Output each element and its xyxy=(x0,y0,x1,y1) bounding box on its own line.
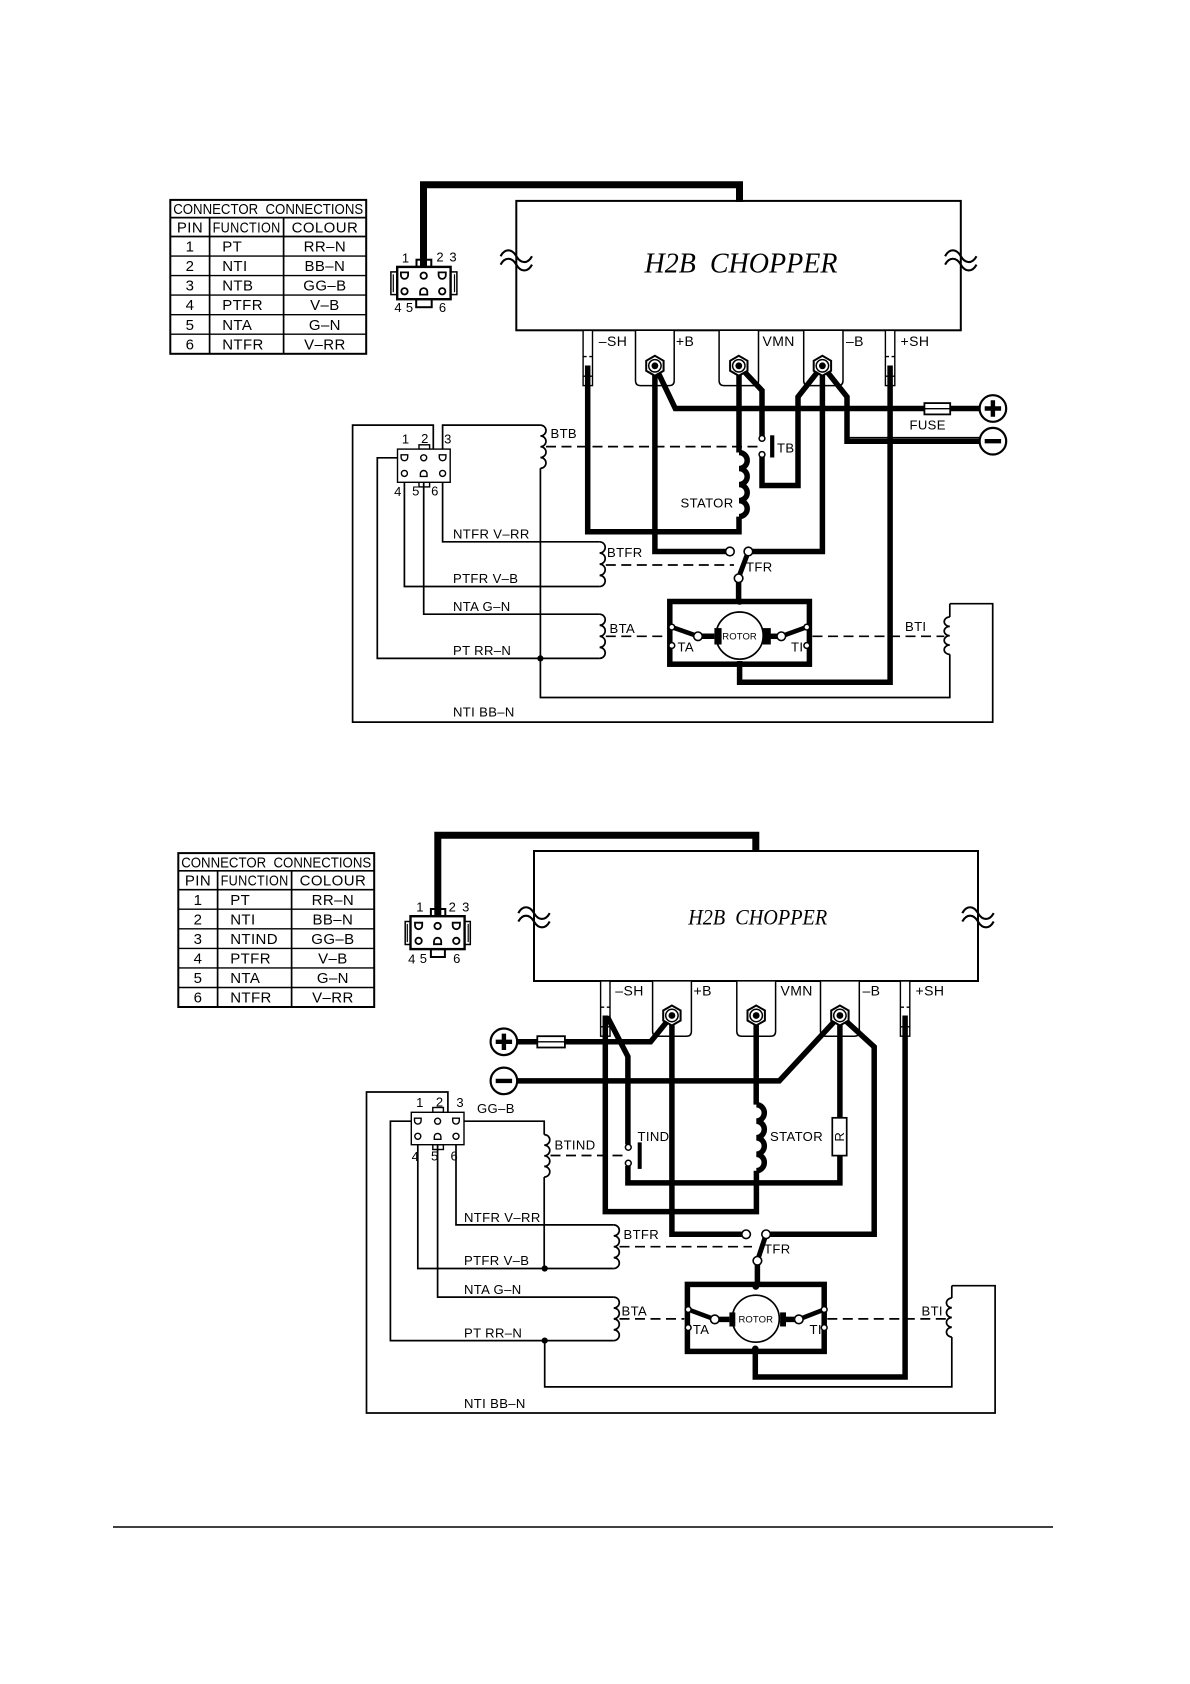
label TI (bottom) xyxy=(810,1322,822,1337)
svg-text:5: 5 xyxy=(420,951,427,966)
svg-text:6: 6 xyxy=(186,336,195,353)
break squiggle right of U2 xyxy=(962,907,993,927)
terminal tab +SH (top) xyxy=(885,330,894,385)
wire VMN to stator top (top) xyxy=(736,366,742,453)
svg-text:COLOUR: COLOUR xyxy=(292,220,359,237)
svg-text:TB: TB xyxy=(777,441,794,456)
svg-text:3: 3 xyxy=(194,931,203,948)
svg-text:1: 1 xyxy=(402,251,409,266)
label BTIND (bottom) xyxy=(555,1138,596,1153)
wire PT RR-N pin1 (bottom) xyxy=(390,1121,613,1340)
inductor BTA (top) xyxy=(600,614,606,658)
inductor STATOR (bottom) xyxy=(756,1105,764,1171)
svg-text:5: 5 xyxy=(194,970,203,987)
svg-text:1: 1 xyxy=(416,900,423,915)
dashed link BTIND to TIND (bottom) xyxy=(551,1155,625,1157)
wire pin3 to BTB (top) xyxy=(443,425,541,455)
svg-text:1: 1 xyxy=(194,892,203,909)
svg-text:CONNECTOR CONNECTIONS: CONNECTOR CONNECTIONS xyxy=(173,202,363,218)
label NTFR V-RR (top) xyxy=(453,527,530,542)
inductor BTFR (top) xyxy=(600,542,606,587)
svg-text:+SH: +SH xyxy=(916,983,945,999)
cable connector J3 to chopper (bottom) xyxy=(438,835,756,915)
wire +SH to rotor bottom (bottom) xyxy=(755,1016,905,1378)
label TI (top) xyxy=(791,640,803,655)
switch TFR contacts (top) xyxy=(726,547,753,582)
inductor BTA (bottom) xyxy=(614,1297,620,1341)
svg-text:–B: –B xyxy=(863,983,881,999)
svg-text:NTA: NTA xyxy=(230,970,260,987)
dashed link BTA to TA (bottom) xyxy=(620,1318,685,1320)
terminal tab +B (bottom) xyxy=(653,982,692,1037)
label STATOR (top) xyxy=(681,496,734,511)
svg-text:BB–N: BB–N xyxy=(313,911,354,928)
svg-text:–SH: –SH xyxy=(599,333,627,349)
terminal - battery (bottom) xyxy=(491,1068,518,1095)
svg-text:STATOR: STATOR xyxy=(681,496,734,511)
bolt terminal -B (bottom) xyxy=(831,1006,848,1026)
terminal tab -B (bottom) xyxy=(821,982,860,1037)
svg-text:2: 2 xyxy=(436,1095,443,1110)
rotor circle (top) xyxy=(716,612,763,659)
svg-text:+SH: +SH xyxy=(901,333,930,349)
label TB (top) xyxy=(777,441,794,456)
svg-text:NTA G–N: NTA G–N xyxy=(453,599,511,614)
svg-text:1: 1 xyxy=(402,432,409,447)
label +SH (bottom) xyxy=(916,983,945,999)
wire -B to TFR pivot (bottom) xyxy=(770,1016,874,1235)
inductor BTB (top) xyxy=(540,425,546,468)
wire PTFR V-B pin4 (bottom) xyxy=(418,1140,614,1269)
switch TFR contacts (bottom) xyxy=(742,1230,771,1265)
svg-text:H2B CHOPPER: H2B CHOPPER xyxy=(687,905,827,929)
svg-text:5: 5 xyxy=(186,317,195,334)
dashed link TI to BTI (top) xyxy=(813,635,945,637)
wire TIND bottom to resistor R (bottom) xyxy=(628,1156,840,1183)
wire VMN to TB top contact (top) xyxy=(739,366,762,436)
label TIND (bottom) xyxy=(638,1129,670,1144)
label TFR (top) xyxy=(746,560,773,575)
label -B (bottom) xyxy=(863,983,881,999)
svg-text:6: 6 xyxy=(450,1149,457,1164)
svg-text:TI: TI xyxy=(810,1322,822,1337)
svg-text:TA: TA xyxy=(693,1322,709,1337)
label BTI (bottom) xyxy=(922,1304,943,1319)
contact circles TA (top) xyxy=(669,624,702,648)
inductor STATOR (top) xyxy=(739,453,747,517)
wire NTA G-N pin5 (top) xyxy=(424,476,600,614)
fuse FUSE (top) xyxy=(924,403,950,414)
label -SH (top) xyxy=(599,333,627,349)
svg-text:GG–B: GG–B xyxy=(477,1101,515,1116)
bolt terminal +B (bottom) xyxy=(663,1006,680,1026)
wire NTI BB-N outer loop (top) xyxy=(353,425,993,722)
wire -B to - terminal (top) xyxy=(822,366,979,441)
svg-text:2: 2 xyxy=(194,911,203,928)
svg-text:FUNCTION: FUNCTION xyxy=(221,873,289,890)
svg-text:PT: PT xyxy=(230,892,250,909)
dashed link BTFR to TFR (bottom) xyxy=(620,1246,753,1248)
svg-text:2: 2 xyxy=(449,899,456,914)
svg-text:BTI: BTI xyxy=(905,619,926,634)
svg-text:PIN: PIN xyxy=(177,220,203,237)
svg-text:PTFR V–B: PTFR V–B xyxy=(464,1253,529,1268)
svg-text:–B: –B xyxy=(846,333,864,349)
junction dot rotor bottom (top) xyxy=(736,661,743,668)
svg-text:6: 6 xyxy=(439,300,446,315)
inductor BTFR (bottom) xyxy=(614,1225,620,1269)
svg-text:G–N: G–N xyxy=(317,970,349,987)
svg-text:NTFR: NTFR xyxy=(230,990,272,1007)
switch TFR blade (bottom) xyxy=(757,1234,766,1286)
table CONNECTOR CONNECTIONS (bottom) xyxy=(178,853,374,1007)
svg-text:5: 5 xyxy=(406,300,413,315)
wire -SH branch to TIND top (bottom) xyxy=(607,1017,628,1145)
bolt terminal VMN (top) xyxy=(730,356,747,376)
label +SH (top) xyxy=(901,333,930,349)
connector J3 6-pin (bottom) xyxy=(405,899,470,966)
svg-text:COLOUR: COLOUR xyxy=(300,873,367,890)
svg-text:G–N: G–N xyxy=(309,317,341,334)
svg-text:V–RR: V–RR xyxy=(304,336,346,353)
terminal tab VMN (top) xyxy=(719,331,758,386)
svg-text:R: R xyxy=(832,1132,847,1142)
switch TI blade and brush (bottom) xyxy=(780,1310,824,1327)
svg-text:PT RR–N: PT RR–N xyxy=(453,643,511,658)
svg-text:NTB: NTB xyxy=(222,278,253,295)
inductor BTIND (bottom) xyxy=(544,1135,550,1177)
svg-text:H2B CHOPPER: H2B CHOPPER xyxy=(644,249,838,280)
wire PT RR-N pin1 (top) xyxy=(377,458,599,659)
svg-text:ROTOR: ROTOR xyxy=(722,631,757,642)
switch TA blade and brush (bottom) xyxy=(688,1310,735,1327)
label +B (bottom) xyxy=(694,983,712,999)
inductor BTI (bottom) xyxy=(946,1286,951,1337)
svg-text:3: 3 xyxy=(186,278,195,295)
connector J2 6-pin harness (top) xyxy=(394,431,451,499)
label -SH (bottom) xyxy=(615,983,643,999)
wire pin3 GG-B to BTIND (bottom) xyxy=(460,1121,544,1134)
wire NTA G-N pin5 (bottom) xyxy=(438,1140,614,1297)
svg-text:4: 4 xyxy=(186,297,195,314)
label BTA (top) xyxy=(610,621,636,636)
svg-text:1: 1 xyxy=(416,1095,423,1110)
svg-text:NTA: NTA xyxy=(222,317,252,334)
label +B (top) xyxy=(676,333,694,349)
wire +B to TFR left contact (top) xyxy=(655,366,726,552)
wire +B to TFR left contact (bottom) xyxy=(672,1016,742,1235)
svg-text:ROTOR: ROTOR xyxy=(738,1314,773,1325)
wire NTFR V-RR pin6 (bottom) xyxy=(456,1140,614,1225)
wire -SH to stator bottom (bottom) xyxy=(605,1016,756,1212)
label -B (top) xyxy=(846,333,864,349)
svg-text:PT: PT xyxy=(222,239,242,256)
svg-text:TFR: TFR xyxy=(746,560,773,575)
svg-text:BTIND: BTIND xyxy=(555,1138,596,1153)
terminal + battery (top) xyxy=(980,395,1007,422)
terminal tab -SH (top) xyxy=(583,330,592,385)
wire +SH to rotor bottom (top) xyxy=(740,366,891,683)
label NTFR V-RR (bottom) xyxy=(464,1210,541,1225)
label VMN (bottom) xyxy=(781,983,813,999)
terminal tab -B (top) xyxy=(804,331,843,386)
wire NTI BB-N outer loop (bottom) xyxy=(367,1092,996,1413)
svg-text:PIN: PIN xyxy=(185,873,211,890)
svg-text:NTIND: NTIND xyxy=(230,931,278,948)
footer rule xyxy=(113,1526,1053,1528)
svg-text:2: 2 xyxy=(421,431,428,446)
svg-text:1: 1 xyxy=(186,239,195,256)
svg-text:PTFR: PTFR xyxy=(222,297,263,314)
dashed link BTB to TB (top) xyxy=(546,446,758,448)
table CONNECTOR CONNECTIONS (top) xyxy=(170,200,366,354)
junction dot rotor top (bottom) xyxy=(753,1283,760,1290)
connector J4 6-pin harness (bottom) xyxy=(411,1095,464,1165)
label STATOR (bottom) xyxy=(770,1129,823,1144)
svg-text:NTFR: NTFR xyxy=(222,336,264,353)
label PT RR-N (top) xyxy=(453,643,511,658)
wire PTFR V-B pin4 (top) xyxy=(404,476,599,586)
junction dot BTIND / PTFR V-B (bottom) xyxy=(542,1265,548,1271)
label NTI BB-N (top) xyxy=(453,705,515,720)
svg-text:BTFR: BTFR xyxy=(624,1227,660,1242)
terminal - battery (top) xyxy=(980,428,1007,455)
svg-text:2: 2 xyxy=(186,258,195,275)
svg-text:6: 6 xyxy=(431,484,438,499)
chopper box U1 (top diagram) xyxy=(516,201,961,330)
svg-text:4: 4 xyxy=(394,300,401,315)
svg-text:NTI: NTI xyxy=(222,258,247,275)
inductor BTI (top) xyxy=(944,604,950,655)
svg-text:VMN: VMN xyxy=(781,983,813,999)
svg-text:NTI BB–N: NTI BB–N xyxy=(453,705,515,720)
label NTI BB-N (bottom) xyxy=(464,1396,526,1411)
svg-text:3: 3 xyxy=(444,432,451,447)
label TA (top) xyxy=(678,640,694,655)
cable connector J1 to chopper (top) xyxy=(424,185,740,266)
label TFR (bottom) xyxy=(764,1242,791,1257)
terminal tab -SH (bottom) xyxy=(601,981,610,1036)
svg-text:3: 3 xyxy=(449,250,456,265)
bolt terminal VMN (bottom) xyxy=(748,1006,765,1026)
svg-text:TIND: TIND xyxy=(638,1129,670,1144)
svg-text:V–B: V–B xyxy=(318,950,348,967)
label NTA G-N (bottom) xyxy=(464,1282,522,1297)
dashed link BTFR to TFR (top) xyxy=(606,564,734,566)
label BTA (bottom) xyxy=(622,1304,648,1319)
contact circles TA (bottom) xyxy=(685,1307,719,1331)
label BTB (top) xyxy=(551,426,578,441)
label BTI (top) xyxy=(905,619,926,634)
switch TI blade and brush (top) xyxy=(763,627,807,644)
contact circles TI (top) xyxy=(777,624,810,648)
svg-text:PTFR: PTFR xyxy=(230,950,271,967)
label PT RR-N (bottom) xyxy=(464,1326,522,1341)
svg-text:BTA: BTA xyxy=(622,1304,648,1319)
bolt terminal -B (top) xyxy=(814,356,831,376)
junction dot rotor top (top) xyxy=(736,598,743,605)
svg-text:BTI: BTI xyxy=(922,1304,943,1319)
svg-text:NTFR V–RR: NTFR V–RR xyxy=(453,527,530,542)
label VMN (top) xyxy=(763,333,795,349)
svg-text:2: 2 xyxy=(436,250,443,265)
wire +B to fuse and + terminal (top) xyxy=(655,366,980,409)
label TA (bottom) xyxy=(693,1322,709,1337)
svg-text:3: 3 xyxy=(462,899,469,914)
svg-text:STATOR: STATOR xyxy=(770,1129,823,1144)
label H2B CHOPPER (bottom) xyxy=(687,905,827,929)
svg-text:3: 3 xyxy=(456,1095,463,1110)
wire BTIND bottom to PTFR junction (bottom) xyxy=(543,1177,545,1269)
chopper box U2 (bottom diagram) xyxy=(534,851,978,981)
svg-text:CONNECTOR CONNECTIONS: CONNECTOR CONNECTIONS xyxy=(181,855,371,871)
dashed link TI to BTI (bottom) xyxy=(827,1318,946,1320)
svg-text:BTA: BTA xyxy=(610,621,636,636)
junction dot PT RR-N / BTI link (bottom) xyxy=(542,1338,548,1344)
bolt terminal +B (top) xyxy=(646,356,663,376)
svg-text:+B: +B xyxy=(676,333,694,349)
label PTFR V-B (bottom) xyxy=(464,1253,529,1268)
svg-text:V–RR: V–RR xyxy=(312,990,354,1007)
junction dot rotor bottom (bottom) xyxy=(752,1346,759,1353)
svg-text:5: 5 xyxy=(412,483,419,498)
switch TFR blade (top) xyxy=(739,552,749,602)
svg-text:RR–N: RR–N xyxy=(304,239,346,256)
svg-text:NTI: NTI xyxy=(230,911,255,928)
svg-text:NTFR V–RR: NTFR V–RR xyxy=(464,1210,541,1225)
rotor circle (bottom) xyxy=(732,1295,779,1342)
svg-text:6: 6 xyxy=(194,990,203,1007)
fuse (bottom) xyxy=(537,1036,565,1047)
svg-text:PT RR–N: PT RR–N xyxy=(464,1326,522,1341)
svg-text:PTFR V–B: PTFR V–B xyxy=(453,571,518,586)
connector J1 6-pin (top) xyxy=(391,250,457,316)
svg-text:4: 4 xyxy=(408,952,415,967)
wire PT junction to BTI bottom (bottom) xyxy=(545,1337,952,1387)
svg-text:NTA G–N: NTA G–N xyxy=(464,1282,522,1297)
svg-text:4: 4 xyxy=(394,484,401,499)
label FUSE (top) xyxy=(910,418,946,433)
svg-text:+B: +B xyxy=(694,983,712,999)
wire TB bottom to -B (top) xyxy=(762,366,822,486)
svg-text:–SH: –SH xyxy=(615,983,643,999)
svg-text:V–B: V–B xyxy=(310,297,340,314)
dashed link BTA to TA (top) xyxy=(606,635,667,637)
break squiggle right of U1 xyxy=(945,250,976,270)
svg-text:TFR: TFR xyxy=(764,1242,791,1257)
switch TB contacts and bar (top) xyxy=(759,435,774,457)
label BTFR (bottom) xyxy=(624,1227,660,1242)
svg-text:VMN: VMN xyxy=(763,333,795,349)
break squiggle left of U1 xyxy=(501,250,532,270)
contact circles TI (bottom) xyxy=(795,1307,828,1331)
label PTFR V-B (top) xyxy=(453,571,518,586)
junction dot BTB / PT RR-N (top) xyxy=(537,655,543,661)
svg-text:5: 5 xyxy=(431,1149,438,1164)
svg-text:BB–N: BB–N xyxy=(305,258,346,275)
terminal + battery (bottom) xyxy=(491,1029,518,1056)
wire -SH to stator bottom (top) xyxy=(588,366,739,532)
wire -B to resistor R (bottom) xyxy=(837,1016,843,1118)
wire -B to TFR pivot (top) xyxy=(752,366,822,552)
svg-text:TI: TI xyxy=(791,640,803,655)
svg-text:6: 6 xyxy=(453,951,460,966)
wire VMN to stator top (bottom) xyxy=(753,1016,759,1105)
wire BTB bottom to BTI bottom (top) xyxy=(540,468,949,697)
switch TIND contacts and bar (bottom) xyxy=(625,1142,641,1169)
rotor frame (bottom) xyxy=(687,1284,824,1351)
svg-text:FUNCTION: FUNCTION xyxy=(213,220,281,237)
svg-text:4: 4 xyxy=(194,950,203,967)
label H2B CHOPPER (top) xyxy=(644,249,838,280)
wire NTFR V-RR pin6 (top) xyxy=(443,476,600,541)
terminal tab VMN (bottom) xyxy=(737,982,776,1037)
break squiggle left of U2 xyxy=(518,907,549,927)
svg-text:GG–B: GG–B xyxy=(311,931,354,948)
svg-text:NTI BB–N: NTI BB–N xyxy=(464,1396,526,1411)
svg-text:FUSE: FUSE xyxy=(910,418,946,433)
terminal tab +B (top) xyxy=(636,331,675,386)
svg-text:GG–B: GG–B xyxy=(303,278,346,295)
svg-text:4: 4 xyxy=(412,1149,419,1164)
label GG-B (bottom) xyxy=(477,1101,515,1116)
label NTA G-N (top) xyxy=(453,599,511,614)
wire - terminal to -B (bottom) xyxy=(517,1016,840,1081)
terminal tab +SH (bottom) xyxy=(900,981,909,1036)
label BTFR (top) xyxy=(607,545,643,560)
svg-text:BTFR: BTFR xyxy=(607,545,643,560)
svg-text:RR–N: RR–N xyxy=(312,892,354,909)
svg-text:TA: TA xyxy=(678,640,694,655)
switch TA blade and brush (top) xyxy=(672,627,722,644)
rotor frame (top) xyxy=(670,602,810,665)
resistor R (bottom) xyxy=(832,1118,847,1156)
svg-text:BTB: BTB xyxy=(551,426,578,441)
wire + terminal to +B (bottom) xyxy=(517,1016,672,1042)
